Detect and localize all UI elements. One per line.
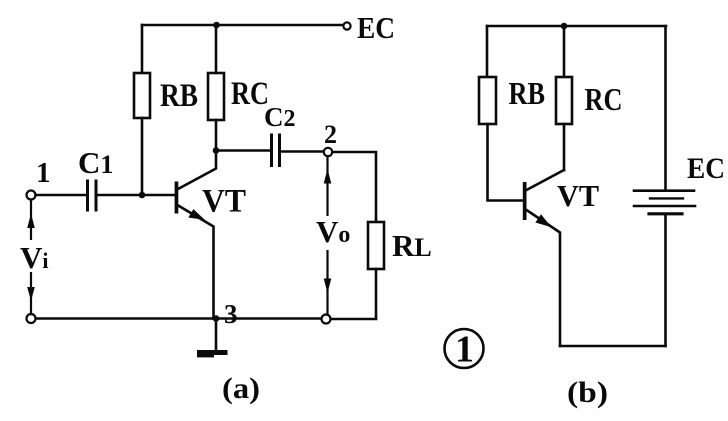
Vo arrowhead down bbox=[324, 279, 332, 294]
terminal 1 bbox=[27, 191, 36, 200]
node: collector junction (a) bbox=[213, 147, 220, 154]
capacitor C2 bbox=[270, 135, 273, 166]
wire: RB top lead (b) bbox=[486, 26, 489, 77]
wire: top rail (b) bbox=[487, 25, 666, 28]
resistor RB (b) bbox=[479, 77, 496, 124]
wire: C2 to node 2 bbox=[280, 150, 324, 153]
svg-text:RB: RB bbox=[160, 78, 198, 114]
svg-text:RB: RB bbox=[509, 75, 546, 111]
resistor RL bbox=[368, 222, 384, 269]
svg-text:1: 1 bbox=[455, 329, 474, 371]
transistor VT (a): emitter arrowhead bbox=[188, 209, 205, 220]
svg-text:VT: VT bbox=[202, 184, 246, 220]
wire: RC bottom lead (a) bbox=[215, 120, 218, 150]
Vo arrowhead up bbox=[324, 169, 332, 184]
transistor VT (a): base bar bbox=[175, 182, 179, 214]
wire: battery bottom lead (b) bbox=[664, 215, 667, 346]
wire: bottom rail of circuit (a) bbox=[36, 317, 322, 320]
battery EC: plate long 3 bbox=[634, 205, 695, 208]
resistor RC (b) bbox=[556, 77, 572, 124]
svg-text:EC: EC bbox=[357, 10, 395, 45]
node 3 junction bbox=[213, 315, 220, 322]
svg-text:RC: RC bbox=[585, 81, 623, 117]
wire: collector node to C2 bbox=[216, 149, 271, 152]
wire: node 2 to RL top bbox=[332, 152, 376, 222]
resistor RC (a) bbox=[208, 73, 224, 120]
ground bbox=[215, 319, 218, 351]
Vo white backing bbox=[313, 216, 347, 250]
svg-text:RL: RL bbox=[392, 228, 432, 263]
capacitor C1 bbox=[86, 181, 89, 210]
node: junction top rail / RC (b) bbox=[561, 23, 568, 30]
terminal: input bottom (a) bbox=[27, 314, 36, 323]
wire: RB bottom lead to base (b) bbox=[488, 124, 523, 201]
wire: C1 to base bbox=[97, 194, 175, 197]
svg-text:VT: VT bbox=[557, 178, 599, 213]
wire: battery top lead (b) bbox=[664, 26, 667, 190]
wire: RB bottom lead (a) bbox=[141, 118, 144, 195]
figure number circle 1 bbox=[445, 329, 484, 368]
Vi white backing bbox=[17, 240, 47, 272]
node: base junction with RB bbox=[139, 192, 146, 199]
wire: terminal 1 to C1 bbox=[36, 194, 88, 197]
node 2 terminal bbox=[324, 148, 332, 156]
svg-text:(a): (a) bbox=[222, 372, 260, 405]
Vi arrowhead down bbox=[27, 287, 35, 301]
transistor VT (a): emitter bbox=[178, 206, 213, 319]
svg-text:2: 2 bbox=[324, 120, 337, 149]
battery EC: plate long top bbox=[634, 189, 694, 192]
svg-text:(b): (b) bbox=[567, 376, 608, 409]
svg-text:C2: C2 bbox=[264, 102, 296, 132]
wire: RB top lead (a) bbox=[141, 25, 144, 73]
transistor VT (b): base bar bbox=[523, 182, 527, 220]
transistor VT (b): collector bbox=[527, 170, 565, 190]
battery EC: plate short 4 bbox=[649, 212, 682, 215]
Vi arrow line bbox=[30, 200, 32, 315]
wire: RC bottom lead (b) bbox=[563, 124, 566, 170]
wire: top rail of circuit (a) bbox=[142, 24, 342, 27]
Vo arrow line bbox=[326, 157, 328, 315]
transistor VT (b): emitter bbox=[527, 210, 561, 346]
terminal: output bottom (a) bbox=[322, 315, 331, 324]
wire: bottom rail (b) bbox=[560, 345, 666, 348]
svg-text:C1: C1 bbox=[78, 145, 113, 180]
wire: RL bottom lead bbox=[375, 269, 378, 319]
node: junction top rail / RC (a) bbox=[213, 22, 220, 29]
svg-text:1: 1 bbox=[36, 157, 51, 189]
svg-text:EC: EC bbox=[687, 152, 725, 185]
terminal EC (a) bbox=[343, 22, 350, 29]
Vi arrowhead up bbox=[27, 214, 35, 229]
battery EC: plate short 2 bbox=[650, 197, 683, 199]
transistor VT (a): collector bbox=[178, 151, 216, 189]
transistor VT (b): emitter arrowhead bbox=[535, 214, 551, 227]
svg-text:3: 3 bbox=[224, 299, 238, 329]
wire: RC top lead (a) bbox=[215, 25, 218, 73]
wire: RC top lead (b) bbox=[563, 26, 566, 77]
resistor RB (a) bbox=[134, 73, 150, 118]
